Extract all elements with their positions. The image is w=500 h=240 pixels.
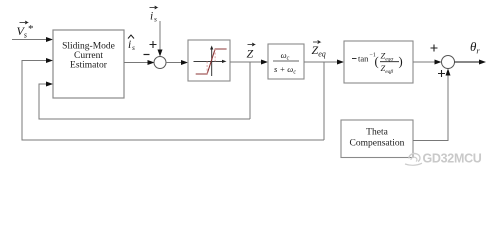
plus sign at junction 2 left bbox=[431, 45, 438, 52]
block U2 saturation (sign function) bbox=[188, 40, 230, 81]
wire Z_eq tap down (outer feedback vertical) bbox=[323, 62, 325, 140]
wire junction 1 to sign block bbox=[166, 60, 188, 65]
wire estimator output to summing junction 1 bbox=[124, 60, 155, 65]
block U1 Sliding-Mode Current Estimator bbox=[53, 30, 124, 98]
minus sign at junction 1 bbox=[144, 54, 150, 56]
svg-text:Current: Current bbox=[74, 51, 103, 61]
svg-text:): ) bbox=[399, 55, 403, 69]
watermark logo swirl bbox=[405, 154, 422, 166]
svg-text:(: ( bbox=[375, 55, 379, 69]
wire outer feedback Z_eq to estimator input 2 bbox=[22, 58, 324, 140]
wire arctan to summing junction 2 bbox=[413, 60, 442, 65]
node label i_s_hat bbox=[128, 35, 135, 52]
svg-text:Sliding-Mode: Sliding-Mode bbox=[62, 42, 115, 52]
dashed guide upper bbox=[214, 49, 216, 61]
node Vs* input label bbox=[17, 21, 34, 40]
plus sign at junction 2 bottom bbox=[438, 70, 445, 77]
wire theta compensation to junction 2 bbox=[413, 69, 451, 141]
plus sign at junction 1 bbox=[150, 41, 157, 48]
svg-text:Z: Z bbox=[247, 47, 254, 61]
wire i_s down into junction 1 bbox=[158, 21, 163, 57]
saturation curve bbox=[196, 49, 227, 74]
node label i_s measured bbox=[150, 6, 158, 24]
node label Z_eq bbox=[312, 41, 326, 59]
svg-text:Theta: Theta bbox=[366, 128, 388, 138]
wire Z tap down (inner feedback vertical) bbox=[249, 62, 251, 119]
wire inner feedback Z to estimator input 3 bbox=[39, 82, 250, 120]
wire filter to arctan block bbox=[304, 60, 344, 65]
svg-text:Compensation: Compensation bbox=[350, 139, 405, 149]
x axis bbox=[194, 60, 225, 62]
summing junction 1 bbox=[154, 57, 166, 69]
y axis bbox=[211, 48, 213, 76]
wire Vs* into estimator bbox=[12, 37, 53, 42]
svg-text:Estimator: Estimator bbox=[70, 61, 108, 71]
block U5 Theta Compensation bbox=[341, 120, 413, 158]
summing junction 2 bbox=[442, 56, 455, 69]
block U4 arctan bbox=[344, 41, 413, 83]
svg-text:s + ωc: s + ωc bbox=[274, 64, 296, 76]
wire sign block to filter bbox=[230, 60, 268, 65]
node label Z bbox=[247, 43, 255, 61]
svg-text:tan: tan bbox=[358, 54, 369, 64]
block U3 low-pass filter wc/(s+wc) bbox=[268, 44, 304, 79]
dashed guide lower bbox=[206, 61, 208, 74]
wire junction 2 output theta_r bbox=[455, 60, 487, 65]
svg-text:GD32MCU: GD32MCU bbox=[423, 152, 482, 166]
